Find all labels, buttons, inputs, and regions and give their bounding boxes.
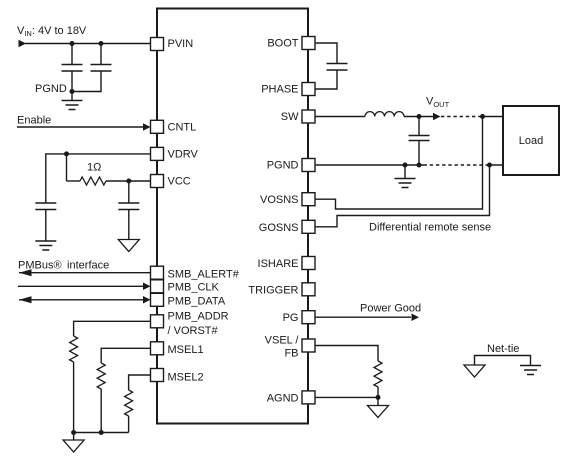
svg-text:ISHARE: ISHARE [258,258,299,270]
svg-text:SMB_ALERT#: SMB_ALERT# [168,268,240,280]
svg-text:TRIGGER: TRIGGER [248,284,298,296]
svg-text:PMB_ADDR: PMB_ADDR [168,311,229,323]
svg-text:VOSNS: VOSNS [260,194,299,206]
svg-text:1Ω: 1Ω [87,162,101,174]
svg-text:PMB_CLK: PMB_CLK [168,282,220,294]
svg-text:MSEL1: MSEL1 [168,344,204,356]
svg-text:Power Good: Power Good [360,303,421,315]
svg-text:Net-tie: Net-tie [487,343,519,355]
svg-text:VCC: VCC [168,175,191,187]
svg-text:/ VORST#: / VORST# [168,325,219,337]
svg-text:Enable: Enable [17,115,51,127]
svg-text:CNTL: CNTL [168,122,197,134]
svg-text:PGND: PGND [35,83,67,95]
svg-text:MSEL2: MSEL2 [168,371,204,383]
svg-text:BOOT: BOOT [267,38,298,50]
svg-text:VDRV: VDRV [168,149,199,161]
svg-text:PG: PG [283,312,299,324]
svg-text:GOSNS: GOSNS [259,222,299,234]
svg-text:SW: SW [281,111,299,123]
svg-text:PMBus® interface: PMBus® interface [18,260,109,272]
svg-text:PVIN: PVIN [168,38,194,50]
svg-text:Load: Load [519,135,543,147]
svg-text:PHASE: PHASE [261,84,298,96]
svg-text:Differential remote sense: Differential remote sense [369,222,491,234]
svg-text:AGND: AGND [267,393,299,405]
svg-text:PGND: PGND [267,159,299,171]
svg-text:VSEL /: VSEL / [265,335,300,347]
svg-text:FB: FB [284,347,298,359]
svg-text:PMB_DATA: PMB_DATA [168,296,226,308]
